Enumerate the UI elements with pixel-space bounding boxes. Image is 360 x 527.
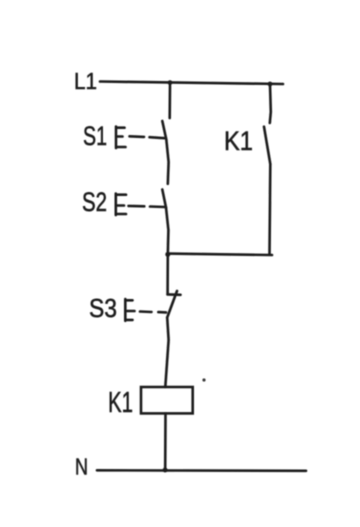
coil K1 box xyxy=(141,387,193,413)
contact K1 label xyxy=(224,126,253,156)
svg-text:K1: K1 xyxy=(224,126,253,156)
contact S3 (NC) moving contact xyxy=(167,291,177,318)
svg-text:L1: L1 xyxy=(74,68,97,94)
pushbutton S1 dashed link xyxy=(130,136,165,138)
svg-text:S1: S1 xyxy=(83,121,107,151)
node N label xyxy=(75,454,88,480)
wire L1 junction down to K1 contact xyxy=(270,84,271,123)
pushbutton S3 label xyxy=(89,293,117,323)
pushbutton S2 dashed link xyxy=(129,206,166,207)
svg-text:K1: K1 xyxy=(108,387,133,419)
coil K1 label xyxy=(108,387,133,419)
speck artifact xyxy=(202,378,205,381)
junction coil on N rail xyxy=(163,468,168,473)
junction right branch on L1 xyxy=(268,82,273,87)
contact K1 (NO) moving contact xyxy=(264,127,270,164)
wire S1 to S2 xyxy=(166,140,168,184)
contact S3 (NC) seat xyxy=(168,293,181,296)
wire L1 rail xyxy=(100,82,283,85)
wire L1 junction down to S1 xyxy=(168,83,171,118)
pushbutton S3 actuator xyxy=(125,299,134,321)
wire junction down to S3 xyxy=(166,254,169,294)
wire S2 to junction xyxy=(166,208,168,255)
svg-text:S2: S2 xyxy=(82,187,107,217)
node L1 label xyxy=(74,68,97,94)
wire parallel connector xyxy=(168,254,272,255)
pushbutton S1 actuator xyxy=(116,127,126,149)
pushbutton S2 label xyxy=(82,187,107,217)
contact S1 (NO) moving contact xyxy=(162,121,166,140)
pushbutton S2 actuator xyxy=(116,194,126,216)
wire N rail xyxy=(97,469,306,472)
svg-text:S3: S3 xyxy=(89,293,117,323)
pushbutton S1 label xyxy=(83,121,107,151)
wire S3 to coil K1 xyxy=(165,318,168,388)
junction parallel branches xyxy=(165,252,170,257)
junction left branch on L1 xyxy=(168,80,173,85)
pushbutton S3 dashed link xyxy=(140,310,166,313)
wire coil K1 to N xyxy=(164,413,167,470)
contact S2 (NO) moving contact xyxy=(162,190,166,208)
svg-text:N: N xyxy=(75,454,88,480)
wire K1 contact down to connector xyxy=(268,164,271,255)
